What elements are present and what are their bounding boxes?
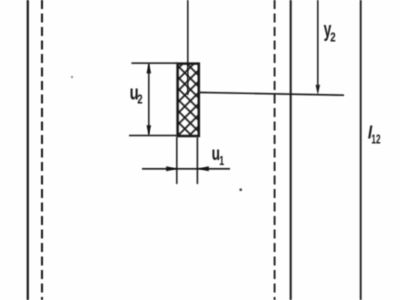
wire: left inner dashed line <box>41 0 43 300</box>
hatched block (component cross-section) <box>178 64 199 136</box>
dimension u2 top extension line <box>131 62 177 64</box>
wire: left outer solid edge line <box>27 0 29 300</box>
svg-text:2: 2 <box>330 31 335 45</box>
dimension u1 line <box>142 168 230 170</box>
svg-text:12: 12 <box>371 133 380 147</box>
dimension y2 leader line <box>317 0 319 85</box>
wire: right solid edge line <box>290 0 292 300</box>
arrowhead u1 left <box>166 166 177 171</box>
svg-text:1: 1 <box>219 154 224 168</box>
speck artifact lower middle <box>239 188 242 191</box>
dimension u1 left extension line <box>176 137 178 184</box>
arrowhead of y2 dimension <box>316 85 320 95</box>
wire: right inner dashed line <box>274 0 276 300</box>
label y2 <box>324 18 336 45</box>
svg-text:2: 2 <box>137 93 142 107</box>
wire: far right boundary line l12 <box>360 0 362 300</box>
label u1 <box>212 143 225 169</box>
label u2 <box>130 81 143 107</box>
arrowhead u2 top <box>147 63 152 73</box>
arrowhead u1 right <box>198 166 209 171</box>
wire: horizontal reference line from block to right <box>200 92 345 95</box>
dimension u2 line <box>148 64 150 135</box>
dimension u1 right extension line <box>196 137 198 184</box>
label l12 <box>368 122 381 147</box>
speck artifact upper left <box>71 76 73 78</box>
wire: vertical centerline of hatched block <box>187 0 189 95</box>
dimension u2 bottom extension line <box>129 135 177 137</box>
arrowhead u2 bottom <box>147 125 152 135</box>
